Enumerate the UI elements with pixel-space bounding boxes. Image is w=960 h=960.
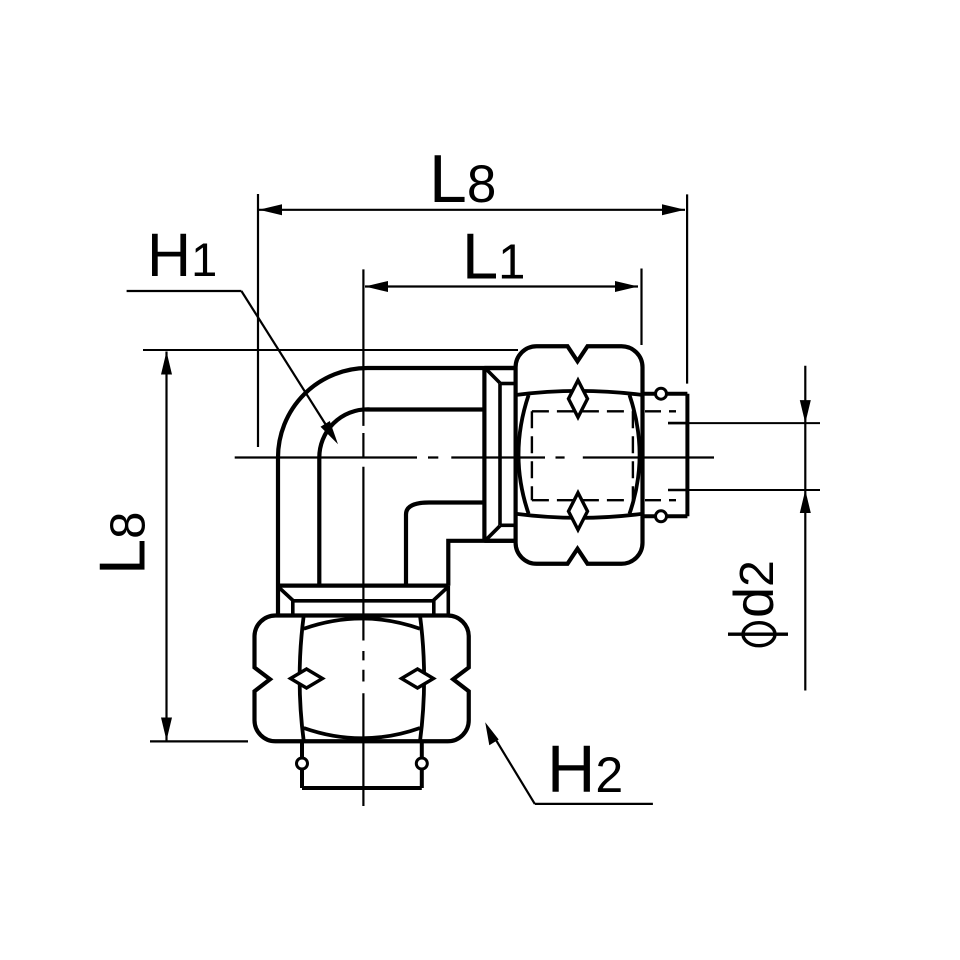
nut bottom: right face boundary curve (420, 616, 424, 742)
horizontal centerline (235, 456, 714, 458)
tube right: upper pip circle (656, 388, 667, 399)
svg-text:d2: d2 (722, 560, 785, 618)
nut bottom: center face bottom arc (304, 728, 420, 738)
svg-text:H1: H1 (147, 221, 217, 289)
tube right inner diameter lines (668, 422, 687, 425)
nut bottom: right diamond (402, 669, 434, 688)
elbow body outer contour (278, 368, 516, 616)
phi symbol (743, 623, 775, 646)
tube bottom: right pip circle (416, 758, 427, 769)
svg-text:L1: L1 (462, 220, 525, 293)
svg-text:H2: H2 (547, 732, 623, 807)
nut bottom: left face boundary curve (300, 616, 304, 742)
svg-text:L8: L8 (429, 141, 496, 217)
dimension L8 (top) (258, 194, 687, 447)
sleeve at right port (484, 368, 515, 541)
leader H1 (127, 291, 338, 444)
elbow bore corner (406, 503, 484, 586)
tube right: lower pip circle (656, 511, 667, 522)
svg-text:L8: L8 (86, 512, 159, 575)
sleeve at bottom port (278, 586, 448, 616)
nut right: bottom face boundary curve (516, 514, 643, 518)
nut right: center face right arc (630, 395, 640, 514)
tube right: hidden thread stubs (645, 410, 676, 412)
nut right: top diamond (569, 380, 588, 417)
nut bottom: center face top arc (304, 619, 420, 629)
leader H2 (485, 722, 653, 804)
bottom port end face (278, 583, 448, 587)
elbow body inner contour (319, 409, 484, 585)
dimension L8 (left, vertical) (143, 350, 518, 741)
tube stub bottom (297, 741, 428, 788)
nut (right, horizontal axis) outline with chamfer notches (516, 346, 643, 564)
nut right: top face boundary curve (516, 391, 643, 395)
tube bottom: left pip circle (297, 758, 308, 769)
vertical centerline (362, 433, 364, 806)
dimension phi-d2 (right) (668, 366, 820, 691)
nut bottom: left diamond (291, 669, 323, 688)
nut right: hidden thread lines (dashed) (532, 411, 633, 500)
nut right: center face left arc (519, 395, 529, 514)
L1 left extension over centerline (362, 269, 364, 426)
nut right: bottom diamond (569, 493, 588, 530)
elbow step outline (448, 541, 515, 586)
right port end face (482, 368, 486, 541)
nut (bottom, vertical axis) outline with chamfer notches (255, 616, 469, 742)
label phi-d2 (rotated) (722, 560, 788, 646)
tube stub right (643, 388, 688, 522)
dimension L1 (365, 269, 642, 346)
